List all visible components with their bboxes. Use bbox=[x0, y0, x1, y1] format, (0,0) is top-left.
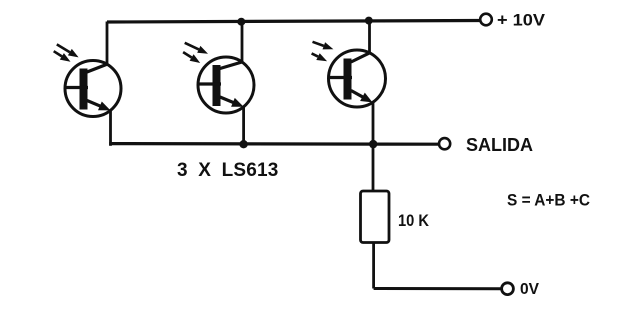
wire: SALIDA output line bbox=[109, 142, 439, 146]
terminal: SALIDA open circle bbox=[439, 138, 450, 149]
wire: Q3 collector drop from rail bbox=[368, 21, 371, 55]
phototransistor Q1 (LS613) bbox=[54, 44, 121, 116]
svg-text:SALIDA: SALIDA bbox=[466, 135, 533, 155]
junction: Q2 emitter to output line bbox=[239, 140, 247, 148]
junction: rail to Q3 collector bbox=[365, 17, 373, 25]
terminal: 0V open circle bbox=[502, 283, 514, 295]
svg-text:3 X LS613: 3 X LS613 bbox=[177, 160, 279, 181]
junction: rail to Q2 collector bbox=[237, 18, 245, 26]
junction: Q3 emitter to output line bbox=[369, 140, 377, 148]
wire: Q3 emitter down through output line to resistor bbox=[372, 100, 375, 192]
wire: +10V top supply rail bbox=[107, 21, 481, 23]
svg-text:S = A+B +C: S = A+B +C bbox=[507, 192, 590, 210]
wire: Q1 collector drop from rail bbox=[106, 22, 109, 67]
wire: Q2 emitter down to output line bbox=[242, 104, 245, 144]
resistor R1 bbox=[361, 191, 390, 243]
phototransistor Q3 (LS613) bbox=[312, 42, 386, 107]
terminal: +10V open circle bbox=[480, 14, 492, 26]
wire: resistor bottom down bbox=[372, 243, 375, 289]
svg-text:10 K: 10 K bbox=[398, 212, 429, 230]
svg-text:+ 10V: + 10V bbox=[497, 12, 545, 30]
wire: Q2 collector drop from rail bbox=[241, 22, 244, 64]
svg-text:0V: 0V bbox=[520, 281, 539, 298]
wire: bottom run to 0V terminal bbox=[374, 287, 502, 290]
phototransistor Q2 (LS613) bbox=[183, 43, 254, 113]
wire: Q1 emitter down to output line bbox=[109, 108, 112, 146]
